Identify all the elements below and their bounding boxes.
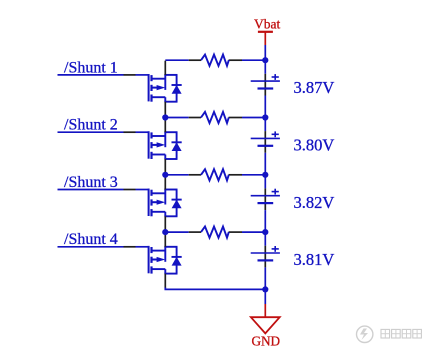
svg-text:/Shunt 4: /Shunt 4: [64, 231, 118, 248]
svg-text:GND: GND: [252, 333, 281, 348]
svg-text:/Shunt 2: /Shunt 2: [64, 117, 118, 134]
svg-text:/Shunt 3: /Shunt 3: [64, 174, 118, 191]
svg-text:/Shunt 1: /Shunt 1: [64, 59, 118, 76]
svg-text:3.80V: 3.80V: [294, 136, 335, 155]
svg-text:3.87V: 3.87V: [294, 78, 335, 97]
svg-text:3.81V: 3.81V: [294, 250, 335, 269]
svg-text:Vbat: Vbat: [254, 17, 280, 32]
svg-text:3.82V: 3.82V: [294, 193, 335, 212]
